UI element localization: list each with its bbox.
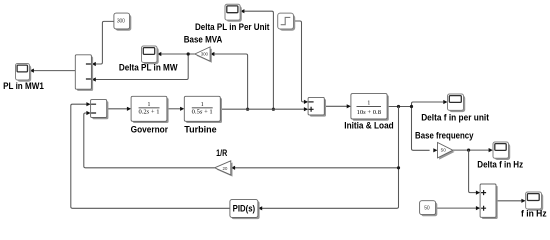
- step source: [278, 13, 295, 31]
- inertia and load transfer function: [344, 94, 393, 131]
- wire turbine output line to sum2 input 2: [220, 107, 308, 111]
- product block (flipped): [75, 55, 93, 91]
- svg-text:Base frequency: Base frequency: [415, 131, 474, 141]
- wire sum1 to governor: [107, 107, 131, 111]
- wire 300 constant to product: [92, 21, 114, 66]
- scope Delta f in Hz: [477, 142, 523, 170]
- PID controller: [230, 200, 260, 220]
- wire PID output to sum1 input 1: [71, 102, 230, 208]
- svg-text:Delta PL in MW: Delta PL in MW: [119, 62, 178, 72]
- sum1 before governor: [91, 100, 109, 120]
- svg-text:PID(s): PID(s): [233, 204, 256, 214]
- wire feedback tee to 1/R gain input: [231, 166, 399, 170]
- svg-text:300: 300: [201, 52, 209, 57]
- gain Base frequency (50, right pointing): [415, 131, 474, 160]
- wire product to scope PL in MW1: [30, 69, 76, 73]
- node turbine line at x=247.6: [246, 108, 249, 111]
- scope PL in MW1: [3, 64, 44, 91]
- scope Delta PL in Per Unit: [195, 4, 269, 32]
- wire gain BaseMVA output to scope Delta PL in MW: [157, 52, 195, 56]
- svg-text:0.2s + 1: 0.2s + 1: [139, 110, 160, 116]
- svg-text:20: 20: [222, 166, 227, 171]
- svg-text:300: 300: [117, 18, 125, 24]
- wire sum3 to scope f in Hz: [496, 199, 525, 203]
- svg-text:Turbine: Turbine: [184, 124, 216, 134]
- svg-text:1: 1: [201, 102, 204, 108]
- svg-text:PL in MW1: PL in MW1: [3, 81, 44, 91]
- wire gain 50 output to scope Delta f in Hz: [453, 148, 493, 152]
- node gain 50 output at x=468.6: [467, 149, 470, 152]
- wire 1/R output to sum1 input 2: [84, 111, 215, 168]
- wire from turbine line up to gain BaseMVA input: [210, 52, 247, 109]
- wire governor to turbine: [167, 107, 184, 111]
- turbine transfer function: [184, 96, 222, 134]
- svg-text:50: 50: [424, 205, 430, 211]
- governor transfer function: [131, 96, 169, 134]
- sum2 before inertia: [308, 97, 326, 116]
- wire feedback vertical to PID input: [258, 107, 399, 211]
- wire riser down to gain Base frequency: [412, 107, 438, 153]
- gain Base MVA (300, left pointing): [184, 35, 223, 63]
- wire branch down from gain output to product input 2: [92, 54, 189, 82]
- wire riser up to scope Delta f in per unit: [412, 100, 448, 107]
- node inertia output at x=398.5: [397, 105, 400, 108]
- svg-text:f in Hz: f in Hz: [521, 209, 547, 219]
- svg-text:1: 1: [148, 102, 151, 108]
- gain 1/R (20, left pointing): [215, 148, 233, 176]
- scope Delta f in per unit: [421, 94, 489, 123]
- node on gain output wire: [187, 52, 190, 55]
- node inertia output at x=411.5: [410, 105, 413, 108]
- svg-text:Delta PL in Per Unit: Delta PL in Per Unit: [195, 22, 269, 32]
- svg-text:Base MVA: Base MVA: [184, 35, 223, 45]
- wire sum2 to inertia block: [324, 104, 351, 108]
- svg-text:Delta f in Hz: Delta f in Hz: [477, 160, 523, 170]
- scope Delta PL in MW: [119, 46, 178, 72]
- svg-text:Initia & Load: Initia & Load: [344, 121, 393, 131]
- node feedback tee at (398.5,167.8): [397, 166, 400, 169]
- svg-text:10s + 0.8: 10s + 0.8: [357, 110, 382, 116]
- svg-text:0.5s + 1: 0.5s + 1: [192, 110, 213, 116]
- svg-text:1/R: 1/R: [216, 148, 227, 158]
- wire from turbine line up to scope Delta PL in Per Unit: [240, 9, 273, 109]
- svg-text:Governor: Governor: [131, 124, 169, 134]
- wire branch down to sum3 input 1: [469, 150, 481, 195]
- wire inertia output: [387, 106, 411, 108]
- scope f in Hz: [521, 192, 547, 219]
- svg-text:1: 1: [367, 101, 370, 107]
- constant 300: [114, 13, 131, 31]
- wire step to sum2 input 1: [294, 21, 309, 104]
- svg-text:50: 50: [441, 148, 447, 154]
- constant 50: [420, 201, 438, 217]
- sum3 right (tall): [480, 184, 498, 219]
- node turbine line at x=273.4: [272, 108, 275, 111]
- svg-text:Delta f in per unit: Delta f in per unit: [421, 113, 489, 123]
- wire constant 50 to sum3 input 2: [436, 206, 480, 210]
